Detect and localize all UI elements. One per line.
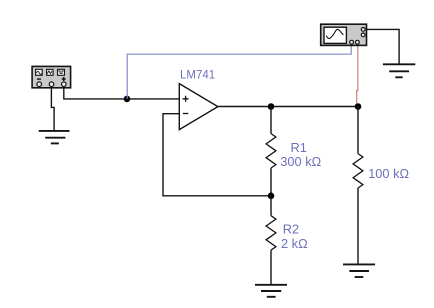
wire feedback from inverting input to R1-R2 node xyxy=(163,114,271,196)
terminal channel A xyxy=(350,40,354,44)
terminal common xyxy=(49,82,54,87)
wire blue to oscilloscope channel A xyxy=(127,44,351,99)
terminal channel B xyxy=(356,40,360,44)
wire op-amp output xyxy=(218,106,358,108)
wire node D down to R3 xyxy=(357,107,359,154)
svg-text:LM741: LM741 xyxy=(180,69,215,81)
terminal plus xyxy=(62,82,67,87)
svg-text:100 kΩ: 100 kΩ xyxy=(368,166,409,181)
svg-text:R1: R1 xyxy=(291,140,307,155)
wire red from oscilloscope channel B to node D xyxy=(357,44,358,103)
terminal ground xyxy=(361,28,365,32)
node D output right junction dot xyxy=(355,103,362,110)
terminal trigger xyxy=(361,33,365,37)
ground under R2 xyxy=(255,285,287,297)
wire R3 bottom to ground xyxy=(357,188,359,264)
node C feedback junction dot xyxy=(268,193,275,200)
svg-text:2 kΩ: 2 kΩ xyxy=(281,236,308,251)
resistor R3 100k xyxy=(353,154,409,188)
ground for oscilloscope xyxy=(383,64,415,77)
wire R1 bottom to node C xyxy=(270,168,272,196)
svg-text:300 kΩ: 300 kΩ xyxy=(280,154,321,169)
ground under FG xyxy=(39,131,70,144)
node A junction dot xyxy=(124,96,131,103)
op-amp U1 LM741 xyxy=(179,69,218,129)
svg-text:R2: R2 xyxy=(283,222,299,237)
wire R2 bottom to ground xyxy=(270,250,272,284)
wire FG plus output to op-amp noninverting input xyxy=(64,87,180,99)
resistor R2 2k xyxy=(266,216,308,251)
wire node B down to R1 xyxy=(270,107,272,134)
oscilloscope XSC1 xyxy=(321,24,367,45)
wire node C down to R2 xyxy=(270,196,272,216)
wire oscilloscope ground terminal xyxy=(367,29,400,63)
node B output junction dot xyxy=(268,103,275,110)
ground under R3 xyxy=(343,264,375,277)
resistor R1 300k xyxy=(266,134,322,169)
wire FG common to ground xyxy=(51,87,54,131)
terminal minus xyxy=(37,82,42,87)
function generator XFG1 xyxy=(32,66,71,87)
